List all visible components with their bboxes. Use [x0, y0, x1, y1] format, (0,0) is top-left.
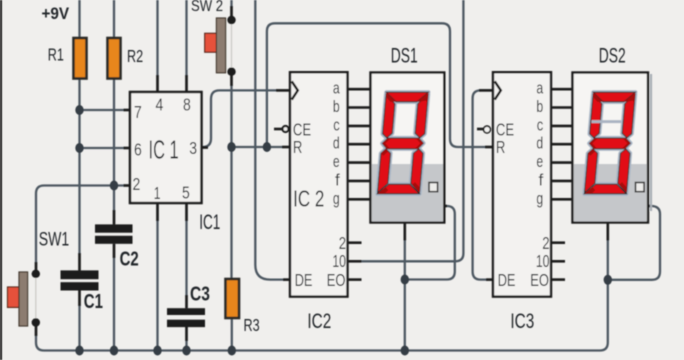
svg-text:IC3: IC3 — [510, 309, 534, 333]
svg-text:SW1: SW1 — [39, 228, 69, 250]
svg-text:10: 10 — [332, 252, 346, 272]
svg-text:C2: C2 — [120, 247, 139, 270]
svg-text:DS1: DS1 — [391, 44, 418, 68]
svg-text:d: d — [333, 135, 340, 153]
svg-text:DE: DE — [498, 271, 516, 290]
svg-text:g: g — [333, 190, 340, 208]
svg-text:EO: EO — [530, 271, 549, 290]
svg-text:C3: C3 — [190, 282, 210, 305]
svg-text:EO: EO — [327, 271, 346, 290]
svg-text:DS2: DS2 — [599, 44, 626, 68]
svg-text:CE: CE — [293, 121, 311, 140]
svg-text:10: 10 — [536, 252, 550, 272]
svg-text:3: 3 — [189, 138, 197, 158]
svg-text:8: 8 — [183, 95, 191, 115]
svg-text:R: R — [496, 138, 505, 157]
svg-text:CE: CE — [496, 121, 514, 140]
svg-text:4: 4 — [156, 95, 164, 115]
svg-text:6: 6 — [134, 140, 142, 160]
svg-text:R: R — [293, 138, 302, 157]
svg-text:2: 2 — [339, 234, 346, 253]
svg-text:IC 2: IC 2 — [293, 187, 324, 212]
svg-text:f: f — [538, 170, 543, 189]
svg-text:R2: R2 — [127, 47, 143, 67]
svg-text:b: b — [333, 98, 340, 116]
svg-text:a: a — [536, 80, 543, 98]
svg-text:a: a — [333, 80, 340, 98]
svg-text:IC2: IC2 — [307, 309, 331, 333]
svg-text:g: g — [536, 190, 543, 208]
svg-text:IC1: IC1 — [199, 210, 220, 234]
svg-text:1: 1 — [154, 184, 161, 204]
svg-text:e: e — [536, 153, 543, 171]
svg-text:e: e — [333, 153, 340, 171]
svg-text:c: c — [537, 116, 544, 135]
svg-text:7: 7 — [134, 102, 142, 122]
svg-text:DE: DE — [295, 271, 313, 290]
svg-text:d: d — [536, 135, 543, 153]
svg-text:IC 1: IC 1 — [149, 136, 179, 165]
svg-text:R3: R3 — [244, 316, 260, 336]
svg-text:f: f — [335, 170, 340, 189]
svg-text:C1: C1 — [84, 290, 103, 313]
svg-text:5: 5 — [182, 183, 190, 203]
svg-text:2: 2 — [542, 234, 549, 253]
svg-text:c: c — [333, 116, 340, 135]
svg-text:R1: R1 — [48, 45, 64, 65]
svg-text:2: 2 — [133, 174, 141, 194]
svg-text:b: b — [536, 98, 543, 116]
svg-text:+9V: +9V — [42, 4, 70, 23]
svg-text:SW 2: SW 2 — [191, 0, 223, 15]
